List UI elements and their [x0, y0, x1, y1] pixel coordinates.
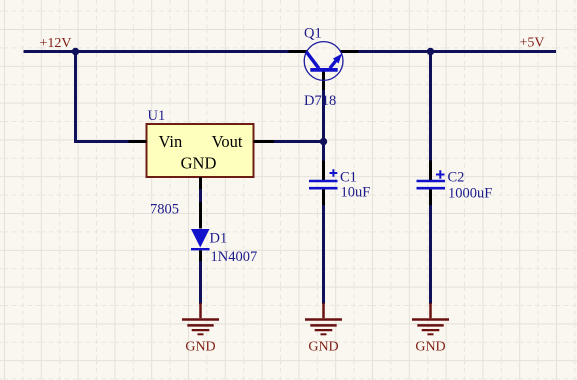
- wire: +12V rail right segment to +5V: [341, 50, 557, 53]
- svg-text:+5V: +5V: [520, 36, 545, 51]
- svg-text:7805: 7805: [150, 202, 179, 218]
- pin Vin of U1: [129, 140, 147, 143]
- svg-text:C2: C2: [448, 169, 465, 185]
- polarity + of C2: [436, 170, 445, 178]
- wire: D1 cathode to GND: [199, 250, 202, 261]
- node junction at +12V branch: [72, 48, 79, 55]
- regulator U1 body (7805): [147, 124, 254, 177]
- capacitor C1 (10uF): [309, 181, 338, 188]
- pin Vout of U1: [254, 140, 275, 143]
- ground symbol under C1: [305, 303, 342, 334]
- wire: U1 Vout to junction: [274, 140, 324, 143]
- wire: junction up to Q1 base: [322, 90, 325, 142]
- svg-text:+12V: +12V: [40, 36, 72, 51]
- wire: junction down to C1: [322, 142, 325, 162]
- svg-text:U1: U1: [148, 108, 166, 124]
- ground symbol under D1: [182, 303, 219, 334]
- svg-text:Vout: Vout: [212, 132, 243, 151]
- svg-text:GND: GND: [308, 340, 338, 355]
- pin emitter of Q1: [341, 50, 359, 53]
- pin collector of Q1: [289, 50, 307, 53]
- wire: C1 to GND: [322, 205, 325, 304]
- wire: C2 to GND: [429, 205, 432, 304]
- ground symbol under C2: [412, 303, 449, 334]
- diode D1 (1N4007): [191, 229, 210, 249]
- pin C2 bottom: [429, 190, 432, 211]
- svg-text:Q1: Q1: [304, 26, 322, 42]
- svg-text:GND: GND: [185, 340, 215, 355]
- svg-text:GND: GND: [415, 340, 445, 355]
- svg-text:1000uF: 1000uF: [448, 186, 492, 202]
- svg-text:D718: D718: [304, 93, 336, 109]
- svg-text:GND: GND: [181, 154, 217, 173]
- transistor Q1 (D718): [304, 42, 343, 81]
- pin GND of U1: [199, 177, 202, 189]
- svg-text:D1: D1: [210, 231, 228, 247]
- svg-text:10uF: 10uF: [341, 185, 371, 201]
- pin base of Q1: [322, 72, 325, 91]
- pin C1 top: [322, 161, 325, 181]
- svg-text:1N4007: 1N4007: [211, 249, 258, 265]
- polarity + of C1: [330, 169, 338, 177]
- node junction at C2 branch: [427, 48, 434, 55]
- svg-text:C1: C1: [340, 170, 357, 186]
- wire: +12V rail left segment: [24, 50, 307, 53]
- capacitor C2 (1000uF): [417, 181, 446, 188]
- svg-text:Vin: Vin: [159, 132, 183, 151]
- node junction Vout/base/C1: [320, 138, 327, 145]
- pin C1 bottom: [322, 190, 325, 211]
- wire: rail down to C2: [429, 52, 432, 162]
- pin C2 top: [429, 161, 432, 181]
- wire: from +12V junction down and right to U1 Vin: [76, 52, 129, 142]
